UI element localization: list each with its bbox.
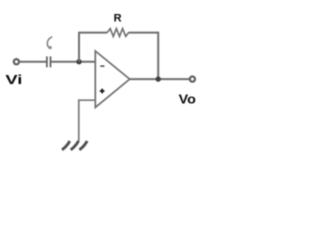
- label C: [47, 37, 52, 50]
- op-amp U1: [95, 51, 129, 107]
- op-amp plus sign: [100, 89, 105, 94]
- wire feedback top right segment: [129, 32, 159, 34]
- wire input terminal to capacitor: [19, 61, 46, 63]
- svg-text:R: R: [114, 13, 122, 25]
- ground (chassis): [62, 141, 87, 150]
- capacitor C (right plate): [50, 56, 52, 67]
- op-amp minus sign: [100, 65, 104, 67]
- wire capacitor to op-amp inverting input: [51, 61, 95, 63]
- svg-text:Vo: Vo: [179, 92, 197, 106]
- wire op-amp non-inverting input: [78, 99, 95, 101]
- wire down to ground: [78, 99, 80, 141]
- wire junction up to feedback loop: [78, 33, 80, 62]
- output terminal Vo: [190, 77, 195, 82]
- wire op-amp output: [130, 78, 190, 80]
- resistor R: [107, 29, 128, 37]
- node A (inverting input junction): [76, 59, 81, 64]
- svg-text:Vi: Vi: [5, 73, 22, 87]
- node B (output junction): [156, 76, 161, 81]
- wire feedback top left segment: [78, 32, 107, 34]
- capacitor C (left plate): [46, 56, 48, 67]
- input terminal Vi: [14, 59, 19, 64]
- wire feedback down to output node: [157, 32, 159, 79]
